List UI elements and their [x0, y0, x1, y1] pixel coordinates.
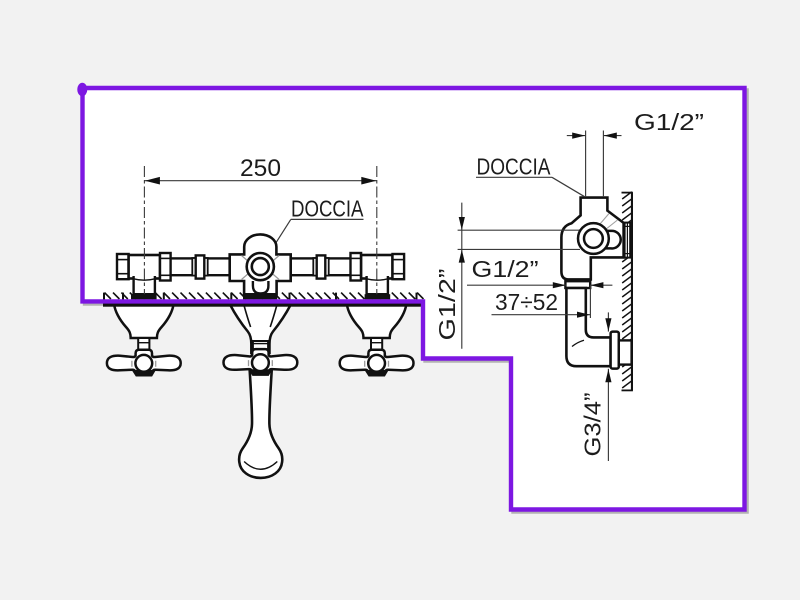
cross handle	[107, 350, 181, 375]
left valve escutcheon bell	[114, 305, 173, 339]
right union	[313, 258, 316, 276]
corner dash marks	[242, 256, 280, 280]
center valve circles	[247, 253, 274, 280]
spout connector U	[253, 281, 269, 294]
left nut	[160, 253, 171, 281]
center valve stem	[253, 341, 268, 353]
side dim: top G1/2 extension lines	[585, 131, 587, 197]
foot plate left	[131, 294, 157, 299]
side dim: outlet vertical line + arrows	[461, 203, 463, 349]
svg-text:DOCCIA: DOCCIA	[291, 196, 364, 222]
handle skirt (black)	[249, 370, 272, 376]
side knob outer	[578, 223, 609, 254]
outlet ring	[565, 281, 590, 288]
svg-text:G3/4”: G3/4”	[580, 393, 606, 457]
right nut	[351, 253, 362, 281]
svg-text:G1/2”: G1/2”	[434, 269, 460, 341]
right valve escutcheon bell	[347, 305, 406, 339]
elbow wall nut	[611, 332, 619, 369]
handle hub	[368, 355, 385, 372]
bulb inner arc	[244, 462, 277, 470]
elbow wall stub	[619, 340, 632, 364]
left tee body	[129, 255, 160, 279]
highlight polygon shadow	[85, 90, 747, 512]
manifold pipe run	[122, 258, 398, 275]
side outlet ear	[604, 231, 621, 249]
skirt inner neck lines	[244, 305, 277, 327]
left union	[192, 258, 195, 276]
handle skirt (black)	[365, 370, 388, 376]
right valve stem	[371, 338, 382, 350]
wall line (front)	[103, 303, 425, 306]
hub crease ticks	[249, 360, 273, 366]
wall line (side)	[631, 193, 633, 391]
leader DOCCIA side	[552, 177, 585, 197]
right end cap	[393, 254, 405, 279]
svg-text:G1/2”: G1/2”	[472, 256, 539, 282]
side dim: top G1/2 arrows	[567, 135, 586, 137]
left tee down leg	[134, 276, 155, 294]
svg-text:37÷52: 37÷52	[495, 289, 558, 315]
cross handle	[340, 350, 414, 375]
svg-text:G1/2”: G1/2”	[634, 109, 704, 135]
svg-text:250: 250	[240, 155, 281, 182]
vertex dot	[77, 83, 87, 97]
side body	[561, 198, 623, 280]
left end cap	[117, 254, 129, 279]
right tee down leg	[367, 276, 388, 294]
dim 250 extension lines (dash-dot)	[143, 166, 145, 296]
foot plate center	[243, 294, 277, 299]
hub crease ticks	[132, 361, 156, 367]
handle hub	[252, 354, 269, 371]
handle skirt (black)	[133, 370, 156, 376]
side dim: G3/4	[607, 312, 609, 331]
right tee body	[361, 255, 392, 279]
handle hub	[135, 355, 152, 372]
highlight polygon outline	[83, 88, 745, 510]
center valve body with dome	[230, 234, 291, 294]
side knob inner	[584, 229, 603, 248]
side dim: outlet horizontal lines	[458, 229, 580, 231]
elbow inner bend arc	[572, 340, 584, 346]
highlight polygon white fill	[83, 88, 745, 510]
dim 250 line	[144, 180, 376, 182]
svg-text:DOCCIA: DOCCIA	[477, 154, 551, 180]
center spout skirt	[230, 305, 291, 354]
wall hatch (front view)	[105, 293, 424, 299]
center spout tube and bulb	[239, 369, 282, 478]
elbow pipe	[566, 288, 610, 366]
foot plate right	[365, 294, 391, 299]
wall plate	[625, 223, 631, 258]
body fan lines	[597, 214, 618, 232]
wall hatch (side view)	[622, 192, 632, 388]
hub crease ticks	[365, 361, 389, 367]
cross handle	[224, 349, 298, 374]
hatch segment bars	[104, 293, 417, 301]
extension line at 590	[589, 285, 591, 318]
left valve stem	[138, 338, 149, 350]
wall hatch end ticks	[622, 192, 633, 194]
leader line DOCCIA front	[262, 219, 291, 265]
